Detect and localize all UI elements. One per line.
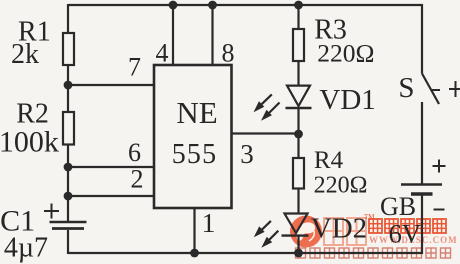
watermark char ZI (385, 219, 398, 233)
watermark brand char WEI (324, 218, 343, 245)
junction node R1-R2 (64, 81, 73, 90)
svg-text:4µ7: 4µ7 (4, 233, 48, 264)
svg-text:100k: 100k (0, 126, 59, 159)
wire R4 to VD2 (297, 189, 299, 215)
wire switch to battery (421, 102, 423, 184)
battery GB (401, 185, 442, 195)
junction node pin6 (64, 163, 73, 172)
svg-text:3: 3 (240, 139, 254, 169)
junction node pin2 (64, 192, 73, 201)
svg-text:R4: R4 (314, 147, 344, 174)
battery minus mark (434, 209, 445, 211)
svg-text:555: 555 (172, 139, 218, 170)
left bus wire R1-R2 segment (67, 65, 69, 112)
pin 1 wire (193, 208, 195, 253)
edge plus mark (449, 81, 460, 97)
resistor R3 (293, 29, 304, 61)
resistor R1 (63, 33, 74, 65)
wire battery to ground rail (421, 196, 423, 255)
pin 4 wire (172, 5, 174, 65)
pin 7 wire (68, 84, 154, 86)
battery plus mark (433, 160, 446, 173)
left bus wire R2-C1 segment (67, 145, 69, 222)
right bus wire top segment (421, 4, 423, 74)
svg-text:220Ω: 220Ω (314, 172, 368, 198)
svg-text:2k: 2k (11, 39, 39, 70)
pin 6 wire (68, 166, 154, 168)
resistor R4 (293, 158, 304, 189)
left bus wire C1-ground segment (67, 230, 69, 254)
top power rail wire (68, 4, 422, 6)
watermark brand char KU (347, 218, 366, 245)
watermark char DIAN (369, 219, 382, 233)
junction node pin4 rail (169, 1, 178, 10)
junction node pin3 VD1-R4 (294, 130, 303, 139)
IC op timer NE555 U1 (154, 65, 232, 208)
pin 3 wire (232, 132, 299, 134)
svg-text:VD1: VD1 (319, 84, 375, 116)
junction node R3 rail (294, 1, 303, 10)
pin 8 wire (211, 5, 213, 65)
capacitor C1 (44, 204, 87, 229)
junction node pin1 ground (190, 249, 199, 258)
LED VD2 (282, 214, 309, 236)
svg-text:1: 1 (202, 207, 216, 238)
wire R3 to VD1 (297, 61, 299, 86)
junction node VD2 ground (294, 249, 303, 258)
svg-text:8: 8 (222, 39, 235, 68)
bottom ground rail wire (68, 252, 422, 254)
svg-text:6: 6 (128, 138, 141, 167)
watermark char WANG (433, 219, 446, 233)
svg-text:4: 4 (156, 39, 169, 68)
svg-text:GB: GB (380, 192, 416, 221)
svg-text:7: 7 (128, 53, 141, 82)
LED VD1 arrows (254, 94, 280, 120)
pin 2 wire (68, 195, 154, 197)
wire VD2 to ground rail (297, 236, 299, 253)
svg-text:NE: NE (176, 95, 217, 130)
left bus wire top segment (67, 4, 69, 33)
svg-text:6V: 6V (389, 219, 421, 249)
watermark bottom slogan chars (296, 248, 451, 258)
junction node pin8 rail (208, 1, 217, 10)
switch S (422, 74, 440, 105)
svg-text:VD2: VD2 (311, 213, 367, 245)
LED VD2 arrows (254, 221, 278, 248)
watermark logo circle (290, 216, 322, 248)
resistor R2 (63, 112, 74, 145)
LED VD1 (286, 86, 312, 108)
wire rail to R3 (297, 5, 299, 29)
watermark char SHI (401, 219, 414, 233)
wire VD1 to R4 (297, 108, 299, 158)
svg-text:S: S (398, 72, 414, 104)
svg-text:220Ω: 220Ω (317, 39, 374, 68)
watermark char CHANG (417, 219, 430, 233)
svg-text:2: 2 (131, 165, 144, 194)
